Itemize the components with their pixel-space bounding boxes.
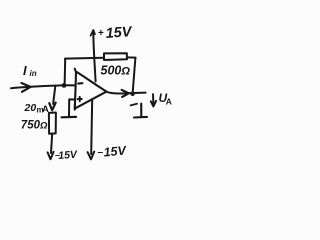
op-amp corner tick [75, 69, 76, 73]
svg-text:750Ω: 750Ω [21, 120, 48, 132]
op-amp U1 triangle [75, 72, 107, 109]
op-amp plus sign [78, 97, 82, 101]
label U_A [159, 91, 172, 107]
svg-text:in: in [30, 69, 37, 78]
op-amp minus sign [78, 82, 82, 85]
label I_in [23, 63, 37, 78]
wire feedback vertical right [133, 58, 136, 94]
svg-text:15V: 15V [58, 149, 78, 162]
label +15V [98, 24, 133, 42]
label 20mA [24, 102, 50, 115]
svg-text:20: 20 [24, 102, 37, 114]
input arrowhead [22, 83, 31, 92]
wire +15V supply vertical [93, 32, 95, 82]
svg-text:A: A [166, 97, 172, 107]
resistor R1 500 ohm box [104, 53, 127, 60]
label -15V right [98, 143, 129, 159]
ground mark under output [131, 104, 147, 118]
wire input horizontal [11, 85, 64, 88]
V- supply arrowhead [88, 152, 95, 160]
wire output [107, 92, 146, 94]
-15V left arrowhead [48, 152, 54, 159]
wire node to inverting input [64, 84, 75, 86]
junction dot output/feedback [130, 92, 135, 97]
wire resistor to right corner [127, 56, 136, 58]
+15V arrowhead [91, 30, 95, 36]
svg-text:15V: 15V [105, 24, 133, 42]
svg-text:15V: 15V [103, 143, 128, 159]
U_A arrow down [151, 94, 156, 106]
wire non-inverting stub [69, 99, 74, 116]
label -15V left [55, 149, 78, 162]
output arrowhead [122, 90, 129, 97]
svg-text:+: + [98, 28, 104, 39]
wire V- supply vertical [91, 99, 92, 154]
node junction input/feedback [62, 83, 67, 88]
wire feedback top horizontal [65, 57, 104, 60]
wire 750 to -15V [51, 134, 52, 153]
resistor R2 750 ohm box [49, 113, 56, 134]
svg-text:I: I [23, 63, 27, 78]
wire feedback vertical left [64, 59, 67, 85]
20mA arrowhead [49, 103, 55, 111]
ground bar [62, 116, 77, 119]
svg-text:500Ω: 500Ω [101, 64, 131, 78]
wire 20mA branch vertical [53, 86, 55, 104]
